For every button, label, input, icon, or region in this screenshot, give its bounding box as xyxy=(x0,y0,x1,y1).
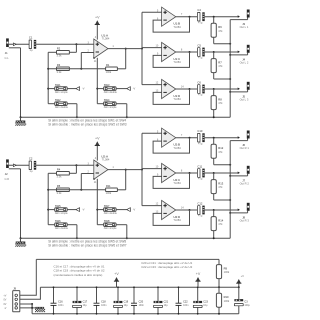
wire output U2:C xyxy=(176,172,197,174)
svg-text:SW2: SW2 xyxy=(55,98,61,102)
wire strap to -V arrow xyxy=(67,209,76,211)
jumper SW6 (Alim double) xyxy=(55,219,69,230)
jumper SW2 (Alim double) xyxy=(55,98,69,109)
jumper SW7 (Alim double) xyxy=(104,204,118,215)
svg-text:100n: 100n xyxy=(101,304,107,307)
wire bias node down to R2 xyxy=(69,44,76,52)
svg-text:R4: R4 xyxy=(57,168,61,172)
svg-text:C6: C6 xyxy=(197,80,201,84)
junction output U2:D xyxy=(189,209,191,211)
svg-text:TL084: TL084 xyxy=(173,218,181,222)
resistor R2 (bias upper) xyxy=(57,47,70,58)
svg-text:SW6: SW6 xyxy=(55,219,61,223)
ground rail xyxy=(21,116,231,118)
connector J8 (Out R 3) xyxy=(240,203,250,223)
wire feedback loop U1:D xyxy=(153,89,189,104)
capacitor C5 (output coupling) xyxy=(197,43,204,59)
junction output U2:C xyxy=(189,172,191,174)
svg-text:TL084: TL084 xyxy=(102,37,110,41)
op-amp U1:D TL084 xyxy=(162,79,182,101)
ground symbol (supply) xyxy=(35,307,45,312)
svg-text:TL084: TL084 xyxy=(173,97,181,101)
svg-text:Alim double: Alim double xyxy=(104,212,118,215)
pin 6 xyxy=(157,138,159,141)
connector J9 (power input) xyxy=(13,286,20,311)
svg-text:0V: 0V xyxy=(3,298,6,301)
svg-text:J1: J1 xyxy=(5,51,8,55)
svg-text:Alim simple: Alim simple xyxy=(104,106,117,109)
svg-text:100n: 100n xyxy=(139,304,145,307)
jumper SW8 (Alim simple) xyxy=(104,219,118,230)
svg-text:+V: +V xyxy=(114,272,119,276)
resistor R5 (bias lower) xyxy=(57,184,70,195)
pin 3 xyxy=(88,163,90,166)
junction load/ground rail xyxy=(229,78,231,80)
wire J5 sleeve xyxy=(230,90,247,92)
wire output node down to R13 xyxy=(213,173,215,180)
capacitor C3 (bias filter 100µ) xyxy=(234,287,250,314)
svg-text:TL084: TL084 xyxy=(173,146,181,150)
resistor R4 (bias upper) xyxy=(57,168,70,179)
junction output node xyxy=(213,88,215,90)
wire R13 to ground rail xyxy=(214,194,231,200)
svg-text:R3: R3 xyxy=(57,63,61,67)
junction op-amp A bottom-left corner xyxy=(93,57,95,59)
connector J7 (Out R 2) xyxy=(240,166,250,186)
wire feedback loop U1:B xyxy=(153,17,189,32)
wire output U1:D xyxy=(176,88,197,90)
label -V pin xyxy=(4,307,7,310)
junction sleeve/ground rail xyxy=(229,54,231,56)
connector J5 (Out L 3) xyxy=(240,82,250,102)
svg-text:C20: C20 xyxy=(139,301,144,304)
junction load/ground rail xyxy=(229,43,231,45)
pin 1 xyxy=(112,166,114,169)
svg-text:SW4: SW4 xyxy=(104,98,110,102)
svg-text:Out R 3: Out R 3 xyxy=(240,218,250,222)
pin 7 xyxy=(181,134,183,137)
svg-text:SW8: SW8 xyxy=(104,219,110,223)
svg-text:+V: +V xyxy=(241,275,244,278)
svg-text:C17: C17 xyxy=(83,301,88,304)
+V supply arrow above op-amp A xyxy=(95,136,100,145)
+V bias arrow xyxy=(236,275,244,287)
svg-text:R5: R5 xyxy=(57,184,61,188)
svg-text:47k: 47k xyxy=(218,150,223,154)
svg-text:47k: 47k xyxy=(218,222,223,226)
svg-text:C21: C21 xyxy=(164,301,169,304)
wire input jack to C1 xyxy=(9,43,29,45)
svg-text:R7: R7 xyxy=(218,60,222,64)
resistor R1 (feedback) xyxy=(106,63,118,74)
wire output ground rail vertical xyxy=(229,141,231,239)
svg-text:Alim double: Alim double xyxy=(55,106,69,109)
op-amp U2:C TL084 xyxy=(162,163,182,185)
svg-text:Si alim double : mettre en pla: Si alim double : mettre en place les str… xyxy=(48,123,127,127)
capacitor C20 (decoupling 100n) xyxy=(131,286,145,314)
svg-text:R6: R6 xyxy=(218,25,222,29)
svg-text:SW1: SW1 xyxy=(55,83,61,87)
svg-text:+V: +V xyxy=(95,136,100,140)
pin 10 xyxy=(156,166,159,169)
net -V arrow (left) xyxy=(76,208,85,212)
wire + input U2:B xyxy=(142,132,162,134)
svg-text:C2: C2 xyxy=(29,157,33,161)
svg-text:10µ: 10µ xyxy=(164,304,169,307)
wire R7 to ground rail xyxy=(214,73,231,79)
wire C6 to jack xyxy=(205,88,240,90)
junction rail/ground xyxy=(20,237,22,239)
wire distribution vertical xyxy=(141,133,143,205)
wire feedback to output xyxy=(117,170,125,190)
junction op-amp A bottom-left corner xyxy=(93,178,95,180)
label 0V pin a xyxy=(3,298,6,301)
junction strap4/rail xyxy=(126,237,128,239)
wire strap4 to ground rail xyxy=(116,104,127,118)
wire +V pin2 to +V rail xyxy=(20,287,41,299)
op-amp U1:C TL084 xyxy=(162,42,182,64)
wire strap4 left xyxy=(97,224,103,226)
wire output U2:D xyxy=(176,209,197,211)
pin 13 xyxy=(156,90,159,93)
junction sleeve/ground rail xyxy=(229,175,231,177)
wire feedback to output xyxy=(117,49,125,69)
label +V pin xyxy=(3,294,6,297)
svg-text:3.3k: 3.3k xyxy=(57,54,63,58)
wire J6 sleeve xyxy=(230,139,247,141)
pin 9 xyxy=(157,174,159,177)
svg-text:Alim double: Alim double xyxy=(55,227,69,230)
wire output node down to R6 xyxy=(213,17,215,24)
svg-text:Alim simple: Alim simple xyxy=(104,227,117,230)
output signal arrow xyxy=(238,15,240,18)
note decoupling right xyxy=(141,261,192,269)
pin 12 xyxy=(156,82,159,85)
wire + input U2:D xyxy=(142,205,162,207)
svg-text:-V: -V xyxy=(133,208,136,212)
junction bias rail / SW xyxy=(47,209,49,211)
svg-text:R12: R12 xyxy=(218,146,223,150)
wire C to op-amp + input xyxy=(36,164,94,166)
svg-text:SW7: SW7 xyxy=(104,204,110,208)
svg-text:C1: C1 xyxy=(29,36,33,40)
wire inverting node to - input xyxy=(81,174,94,190)
svg-text:TL084: TL084 xyxy=(173,60,181,64)
svg-text:100µ: 100µ xyxy=(244,304,250,307)
svg-text:C16: C16 xyxy=(58,301,63,304)
wire strap3 to -V arrow xyxy=(116,88,127,90)
junction -V pin xyxy=(31,307,33,309)
svg-text:47k: 47k xyxy=(218,29,223,33)
wire +V pin up to top line xyxy=(20,259,37,295)
wire pin 4 to +V xyxy=(96,146,98,161)
wire C5 to jack xyxy=(205,51,240,53)
wire + input U1:C xyxy=(142,47,162,49)
wire feedback loop U2:D xyxy=(153,210,189,225)
junction sleeve/ground rail xyxy=(229,91,231,93)
svg-text:100k: 100k xyxy=(106,70,112,74)
pin 8 xyxy=(181,48,183,51)
wire J4 sleeve xyxy=(230,53,247,55)
junction strap/rail xyxy=(76,116,78,118)
capacitor C1 (input coupling) xyxy=(29,36,36,52)
wire feedback loop U2:B xyxy=(153,138,189,153)
svg-text:-V: -V xyxy=(82,87,85,91)
svg-text:47k: 47k xyxy=(218,101,223,105)
wire output node down to R7 xyxy=(213,52,215,59)
wire output U2:B xyxy=(176,137,197,139)
svg-text:R13: R13 xyxy=(218,181,223,185)
svg-text:C11: C11 xyxy=(197,164,202,168)
wire op-amp A output xyxy=(108,48,142,50)
svg-text:-V: -V xyxy=(4,307,7,310)
svg-text:TL084: TL084 xyxy=(173,25,181,29)
pin 14 xyxy=(181,206,184,209)
svg-text:In R: In R xyxy=(5,178,10,181)
junction output U1:D xyxy=(189,88,191,90)
ground symbol xyxy=(15,238,26,246)
capacitor C11 (output coupling) xyxy=(197,164,204,180)
junction output node xyxy=(213,137,215,139)
svg-text:-V: -V xyxy=(133,87,136,91)
svg-text:SW3: SW3 xyxy=(104,83,110,87)
connector J2 (In R) xyxy=(5,159,10,180)
op-amp U2:D TL084 xyxy=(162,200,182,222)
wire R9 to mid node xyxy=(218,279,220,288)
svg-text:100n: 100n xyxy=(58,304,64,307)
jumper SW1 (Alim simple) xyxy=(55,83,69,94)
wire bias vertical rail xyxy=(47,173,49,224)
junction output node xyxy=(213,172,215,174)
capacitor C22 (decoupling 100n) xyxy=(176,286,190,314)
pin 11 xyxy=(94,181,97,184)
svg-text:J2: J2 xyxy=(5,172,8,176)
junction output U1:B xyxy=(189,16,191,18)
svg-text:Alim double: Alim double xyxy=(104,91,118,94)
wire output U1:C xyxy=(176,51,197,53)
svg-text:47µ: 47µ xyxy=(198,20,203,24)
output signal arrow xyxy=(238,136,240,139)
wire R to inverting node xyxy=(48,189,105,191)
junction R10/bottom rail xyxy=(218,313,220,315)
junction strap4/rail xyxy=(126,116,128,118)
wire R12 to ground rail xyxy=(214,158,231,164)
svg-text:C22 et C23 : découplage alim +: C22 et C23 : découplage alim +V de U2 xyxy=(141,265,192,269)
svg-text:TL084: TL084 xyxy=(173,181,181,185)
resistor R14 (load) xyxy=(211,217,224,231)
resistor R6 (load) xyxy=(211,23,223,37)
wire strap left 2 xyxy=(48,103,55,105)
junction feedback / output xyxy=(125,48,127,50)
junction output U2:B xyxy=(189,137,191,139)
wire strap3 left xyxy=(97,88,103,90)
svg-text:C19: C19 xyxy=(124,301,129,304)
svg-text:C10: C10 xyxy=(197,129,202,133)
capacitor C19 (decoupling 10µ) xyxy=(114,286,129,314)
wire bias vertical rail xyxy=(47,52,49,103)
svg-text:R11: R11 xyxy=(106,184,111,188)
wire + input U1:B xyxy=(142,11,162,13)
svg-text:In L: In L xyxy=(5,57,10,60)
wire distribution vertical xyxy=(141,12,143,84)
jumper SW4 (Alim simple) xyxy=(104,98,118,109)
pin 12 xyxy=(156,203,159,206)
capacitor C18 (decoupling 100n) xyxy=(94,286,108,314)
junction pin11 rail / SW xyxy=(96,88,98,90)
svg-text:10µ: 10µ xyxy=(124,304,129,307)
svg-text:+V: +V xyxy=(3,294,6,297)
svg-text:Out R 1: Out R 1 xyxy=(240,146,250,150)
wire pin 4 to +V xyxy=(96,25,98,40)
junction output distribution xyxy=(141,169,143,171)
resistor R11 (feedback) xyxy=(106,184,118,195)
wire strap left 2 xyxy=(48,224,55,226)
svg-text:10µ: 10µ xyxy=(203,304,208,307)
wire R6 to ground rail xyxy=(214,37,231,43)
junction 0V pins xyxy=(31,303,33,305)
svg-text:-V: -V xyxy=(82,208,85,212)
wire R to bias rail xyxy=(48,51,56,53)
wire strap4 to ground rail xyxy=(116,225,127,239)
svg-text:100k: 100k xyxy=(224,299,230,303)
pin 10 xyxy=(156,45,159,48)
connector J1 (In L) xyxy=(5,38,10,59)
wire +V top line xyxy=(36,258,219,260)
svg-text:1µ: 1µ xyxy=(30,169,33,173)
jumper SW3 (Alim double) xyxy=(104,83,118,94)
svg-text:R10: R10 xyxy=(224,295,229,299)
wire bias node down to R4 xyxy=(69,165,76,173)
op-amp U1:B TL084 xyxy=(162,7,182,29)
svg-text:Si alim double : mettre en pla: Si alim double : mettre en place les str… xyxy=(48,244,127,248)
resistor R13 (load) xyxy=(211,180,224,194)
wire output node down to R12 xyxy=(213,138,215,145)
label 0V pin b xyxy=(3,303,6,306)
junction pin11 rail / SW xyxy=(96,209,98,211)
wire feedback loop U2:C xyxy=(153,173,189,188)
resistor R9 (divider 100k) xyxy=(216,265,230,279)
junction bias rail / SW xyxy=(47,88,49,90)
wire top line down to R9 xyxy=(218,259,220,264)
output signal arrow xyxy=(238,88,240,91)
junction bias rail / R5 xyxy=(47,189,49,191)
wire R to inverting node xyxy=(48,68,105,70)
svg-text:1µ: 1µ xyxy=(30,48,33,52)
wire strap left xyxy=(48,88,55,90)
svg-text:3.3k: 3.3k xyxy=(57,175,63,179)
junction + input bias node xyxy=(75,164,77,166)
junction output U1:C xyxy=(189,51,191,53)
capacitor C12 (output coupling) xyxy=(197,201,204,217)
svg-text:J9: J9 xyxy=(13,286,16,290)
svg-text:47k: 47k xyxy=(218,185,223,189)
note decoupling left xyxy=(54,264,105,276)
note straps xyxy=(48,239,127,247)
wire jack sleeve down xyxy=(9,169,21,239)
junction load/ground rail xyxy=(229,164,231,166)
wire R10 to bottom rail xyxy=(218,307,220,314)
junction inverting node xyxy=(80,68,82,70)
capacitor C10 (output coupling) xyxy=(197,129,204,145)
input signal arrow xyxy=(13,43,16,46)
pin 2 xyxy=(88,171,90,174)
svg-text:Alim simple: Alim simple xyxy=(55,91,68,94)
pin 5 xyxy=(157,130,159,133)
capacitor C4 (output coupling) xyxy=(197,8,204,24)
junction load/ground rail xyxy=(229,199,231,201)
svg-text:R9: R9 xyxy=(224,266,228,270)
wire inverting node to - input xyxy=(81,53,94,69)
junction sleeve/ground rail xyxy=(229,212,231,214)
svg-text:47µ: 47µ xyxy=(198,141,203,145)
svg-text:TL084: TL084 xyxy=(102,158,110,162)
wire strap3 left xyxy=(97,209,103,211)
wire C12 to jack xyxy=(205,209,240,211)
output signal arrow xyxy=(238,172,240,175)
svg-text:100k: 100k xyxy=(106,191,112,195)
junction strap/rail xyxy=(76,237,78,239)
svg-text:3.3k: 3.3k xyxy=(57,70,63,74)
pin 7 xyxy=(181,13,183,16)
wire strap left xyxy=(48,209,55,211)
wire R9 top to R10 xyxy=(218,287,220,293)
svg-text:C12: C12 xyxy=(197,201,202,205)
junction output node xyxy=(213,51,215,53)
wire +V rail xyxy=(40,286,238,288)
svg-text:SW5: SW5 xyxy=(55,204,61,208)
resistor R10 (divider 100k) xyxy=(216,293,230,307)
svg-text:+V: +V xyxy=(196,272,201,276)
capacitor C16 (decoupling 100n) xyxy=(51,286,65,314)
svg-text:R14: R14 xyxy=(218,218,223,222)
wire output ground rail vertical xyxy=(229,20,231,118)
input signal arrow xyxy=(13,164,16,167)
resistor R7 (load) xyxy=(211,59,223,73)
wire 0V pin to bottom rail xyxy=(20,304,32,314)
output signal arrow xyxy=(238,209,240,212)
output signal arrow xyxy=(238,51,240,54)
ground rail xyxy=(21,237,231,239)
op-amp U2:B TL084 xyxy=(162,128,182,150)
connector J4 (Out L 2) xyxy=(240,45,250,65)
wire strap to -V arrow xyxy=(67,88,76,90)
pin 4 xyxy=(95,157,97,160)
wire C10 to jack xyxy=(205,137,240,139)
connector J6 (Out R 1) xyxy=(240,131,250,151)
svg-text:R2: R2 xyxy=(57,47,61,51)
wire output U1:B xyxy=(176,16,197,18)
ground symbol xyxy=(15,117,26,125)
wire C to op-amp + input xyxy=(36,43,94,45)
pin 9 xyxy=(157,53,159,56)
pin 1 xyxy=(112,45,114,48)
svg-text:100k: 100k xyxy=(224,270,230,274)
wire pin 11 down to straps xyxy=(96,58,98,104)
+V supply arrow (U1 rail) xyxy=(114,272,119,287)
capacitor C21 (decoupling 10µ) xyxy=(154,286,169,314)
resistor R3 (bias lower) xyxy=(57,63,70,74)
junction load/ground rail xyxy=(213,116,215,118)
wire C11 to jack xyxy=(205,172,240,174)
wire pin 11 down to straps xyxy=(96,179,98,225)
svg-text:C5: C5 xyxy=(197,43,201,47)
wire strap to ground rail xyxy=(67,104,77,118)
capacitor C6 (output coupling) xyxy=(197,80,204,96)
junction + input bias node xyxy=(75,43,77,45)
pin 13 xyxy=(156,211,159,214)
svg-text:47k: 47k xyxy=(218,64,223,68)
svg-text:C4: C4 xyxy=(197,8,201,12)
